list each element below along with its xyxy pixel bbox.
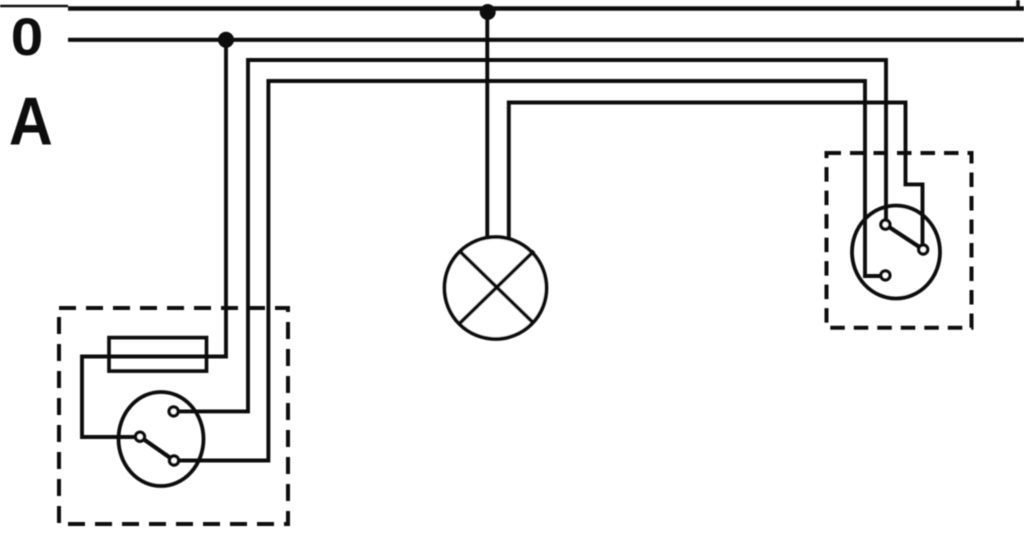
svg-text:0: 0 (11, 7, 44, 67)
svg-text:A: A (9, 84, 53, 160)
